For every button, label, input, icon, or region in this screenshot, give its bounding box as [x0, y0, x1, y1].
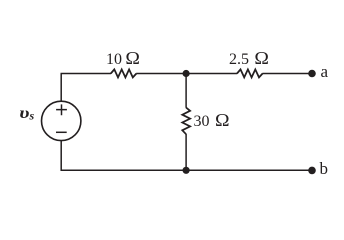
- svg-text:υ: υ: [19, 104, 29, 122]
- voltage source vs circle: [42, 101, 81, 140]
- svg-text:a: a: [321, 62, 329, 81]
- terminal b dot: [308, 167, 316, 175]
- wire bottom from source to terminal b: [61, 169, 313, 171]
- svg-text:b: b: [320, 159, 329, 178]
- svg-text:30: 30: [194, 113, 210, 130]
- wire left vertical top: [60, 74, 62, 102]
- resistor 2.5 ohm: [237, 69, 263, 77]
- wire resistor to terminal a: [262, 73, 312, 75]
- wire top-left horizontal: [61, 73, 112, 75]
- node junction bottom: [183, 167, 190, 174]
- terminal a dot: [308, 70, 316, 78]
- svg-text:2.5: 2.5: [229, 51, 249, 68]
- wire left vertical bottom: [60, 141, 62, 171]
- svg-text:10: 10: [106, 51, 122, 68]
- node junction top: [183, 70, 190, 77]
- svg-text:Ω: Ω: [125, 49, 140, 69]
- wire node down to 30 ohm resistor: [185, 74, 187, 108]
- wire node to 2.5 ohm resistor: [186, 73, 237, 75]
- resistor 30 ohm vertical: [182, 108, 190, 135]
- plus sign: [56, 104, 67, 115]
- svg-text:Ω: Ω: [215, 111, 230, 131]
- svg-text:Ω: Ω: [254, 49, 269, 69]
- svg-text:s: s: [29, 108, 35, 122]
- minus sign: [56, 131, 67, 133]
- wire 30 ohm to bottom node: [185, 134, 187, 170]
- resistor 10 ohm: [111, 69, 137, 77]
- wire resistor to node: [136, 73, 186, 75]
